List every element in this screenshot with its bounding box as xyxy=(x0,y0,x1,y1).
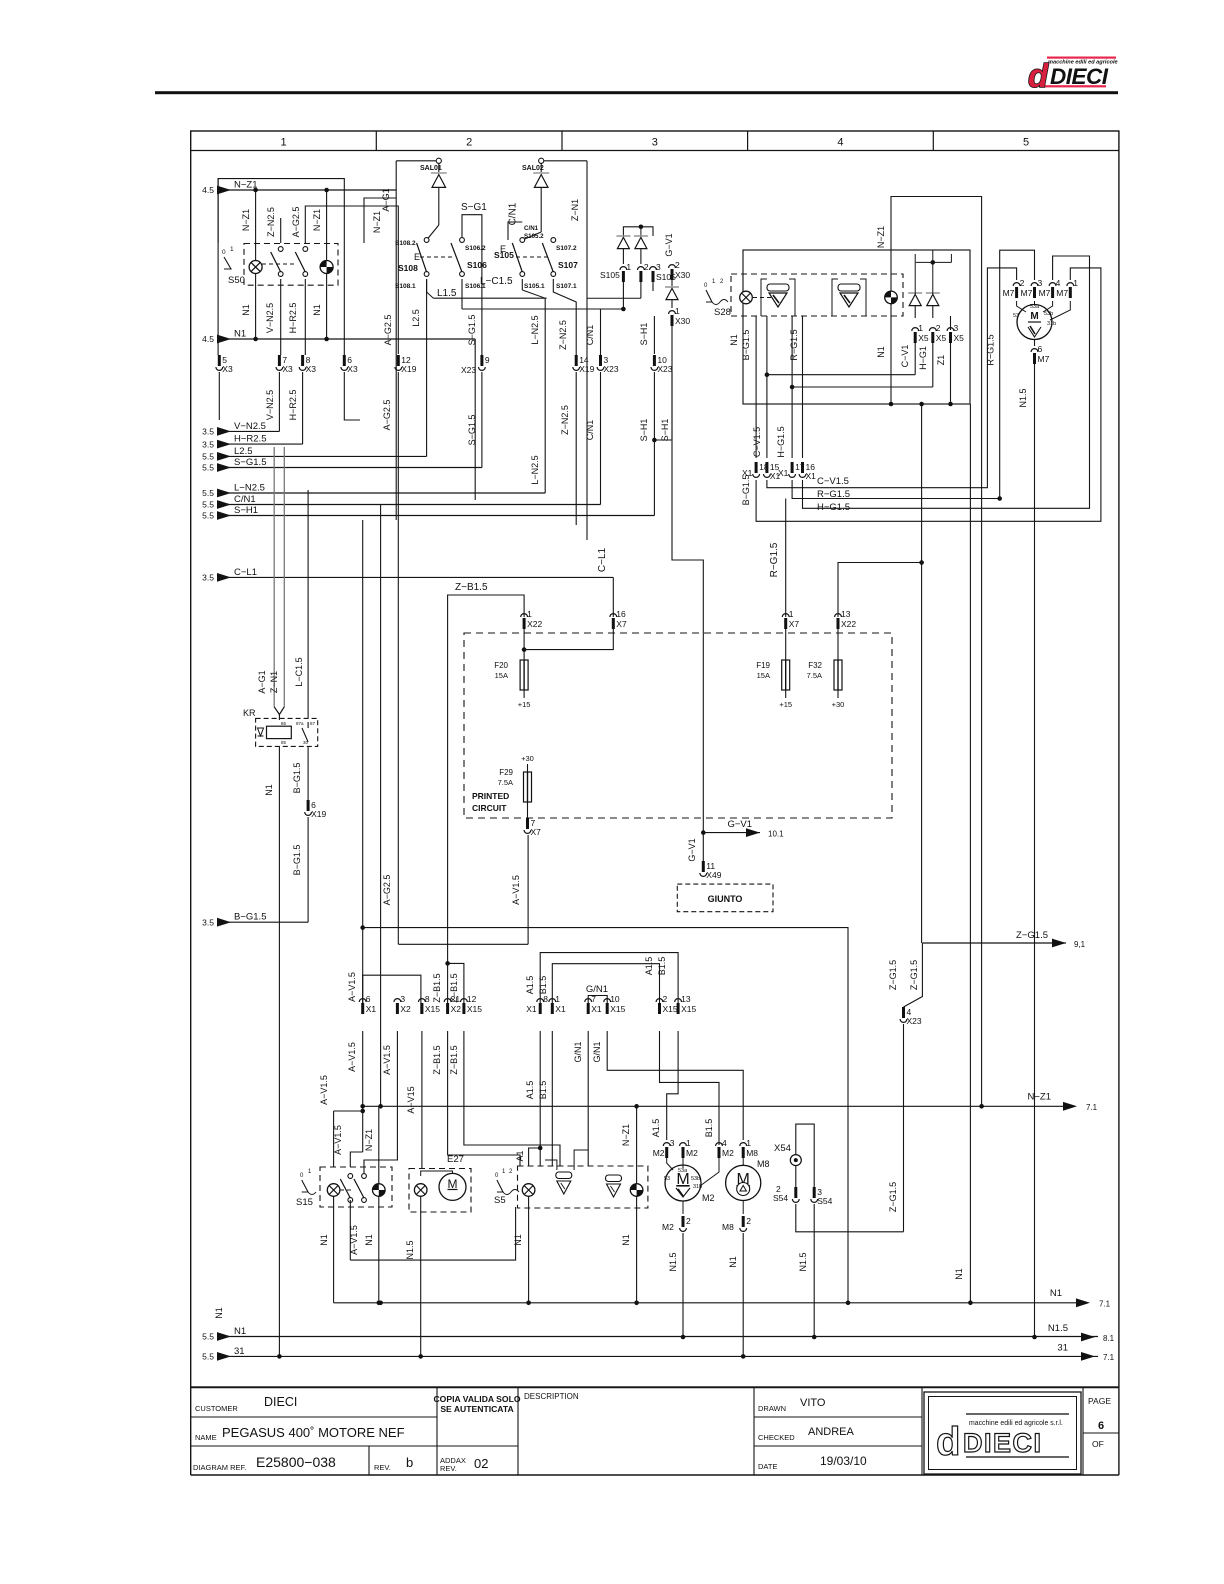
printed circuit (dashed box) xyxy=(464,633,892,818)
node R-G1.5 T-junction xyxy=(919,560,924,565)
svg-text:5.5: 5.5 xyxy=(202,452,214,462)
wire G-V1 through printed circuit to bus xyxy=(702,633,704,861)
svg-text:A−G2.5: A−G2.5 xyxy=(382,875,392,906)
svg-text:E25800−038: E25800−038 xyxy=(256,1454,336,1470)
svg-text:DIECI: DIECI xyxy=(963,1428,1043,1458)
svg-text:6: 6 xyxy=(1098,1420,1104,1432)
connector pin X7-1 xyxy=(782,609,799,629)
svg-text:B1.5: B1.5 xyxy=(704,1119,714,1138)
wire A-V1.5 below X1-6 xyxy=(362,1031,364,1111)
svg-text:V−N2.5: V−N2.5 xyxy=(265,303,275,333)
node diode bracket dot xyxy=(639,225,644,230)
svg-text:2: 2 xyxy=(1020,278,1025,288)
svg-text:+15: +15 xyxy=(518,700,531,709)
terminal SAL01 xyxy=(436,158,441,163)
title block frame xyxy=(191,1387,1119,1389)
wire Z-G1.5 chain xyxy=(904,943,923,1007)
svg-text:53: 53 xyxy=(1013,313,1019,319)
svg-text:3: 3 xyxy=(670,1138,675,1148)
svg-text:9: 9 xyxy=(485,355,490,365)
twisted pair to KR (A-G1 / Z-N1) xyxy=(273,447,275,707)
wire L-N2.5 vertical xyxy=(544,298,546,493)
wire R-G1.5 to X7-1 xyxy=(785,499,787,618)
svg-text:4: 4 xyxy=(1056,278,1061,288)
svg-text:PAGE: PAGE xyxy=(1088,1396,1111,1406)
svg-text:1: 1 xyxy=(1073,278,1078,288)
wires in E27 xyxy=(421,1171,453,1176)
svg-text:S15: S15 xyxy=(296,1197,313,1208)
svg-text:M8: M8 xyxy=(722,1222,734,1232)
svg-text:8: 8 xyxy=(425,994,430,1004)
svg-text:X15: X15 xyxy=(467,1004,482,1014)
svg-text:S105: S105 xyxy=(600,270,620,280)
wire N-Z1 to S15 filled lamp xyxy=(378,1106,380,1184)
connector pin M7-4 xyxy=(1039,278,1061,298)
svg-text:N−Z1: N−Z1 xyxy=(364,1129,374,1151)
motor M2 xyxy=(665,1165,701,1201)
svg-text:X3: X3 xyxy=(282,364,293,374)
wire M2 N1.5 down xyxy=(682,1233,684,1337)
svg-text:G/N1: G/N1 xyxy=(573,1041,583,1062)
wire SAL02 to Z-N1 xyxy=(544,160,587,162)
svg-text:A−G1: A−G1 xyxy=(381,188,391,211)
svg-text:X1: X1 xyxy=(778,468,789,478)
svg-text:M7: M7 xyxy=(1038,354,1050,364)
svg-text:L−N2.5: L−N2.5 xyxy=(234,483,265,494)
connector pin X3-5 xyxy=(216,355,233,374)
svg-text:53a: 53a xyxy=(678,1168,688,1174)
connector pin X2-21 xyxy=(444,994,461,1014)
node C-V1.5 junction xyxy=(765,372,770,377)
wire A-V1.5 S15 switch down xyxy=(349,1200,351,1260)
svg-text:G−V1: G−V1 xyxy=(687,838,697,861)
svg-text:1: 1 xyxy=(230,246,234,253)
wire N1 bus corner down xyxy=(474,339,476,500)
svg-text:86: 86 xyxy=(281,721,287,726)
switch S28 (external) xyxy=(706,290,712,302)
svg-text:d: d xyxy=(936,1420,960,1464)
svg-text:ANDREA: ANDREA xyxy=(808,1426,855,1438)
svg-text:8.1: 8.1 xyxy=(1103,1334,1115,1343)
wire N-Z1 into S5 xyxy=(636,1106,638,1184)
column divider xyxy=(561,131,563,151)
svg-text:C−V1.5: C−V1.5 xyxy=(752,427,762,457)
svg-text:1: 1 xyxy=(308,1169,312,1175)
svg-text:3: 3 xyxy=(1038,278,1043,288)
switch S106 xyxy=(451,238,464,277)
svg-text:G−V1: G−V1 xyxy=(664,233,674,256)
svg-text:1: 1 xyxy=(675,306,680,316)
svg-text:CUSTOMER: CUSTOMER xyxy=(195,1404,238,1413)
terminal SAL02 xyxy=(539,158,544,163)
connector pin X7-7 xyxy=(524,818,541,837)
svg-text:GIUNTO: GIUNTO xyxy=(708,894,743,904)
connector pin S105-2 xyxy=(638,262,649,282)
svg-text:X1: X1 xyxy=(806,471,817,481)
wire S15 lamp feed xyxy=(333,1111,335,1167)
svg-text:OF: OF xyxy=(1092,1439,1104,1449)
node 31 bus dot xyxy=(418,1354,423,1359)
node L1.5 junction xyxy=(621,307,626,312)
svg-text:C−L1: C−L1 xyxy=(597,547,608,572)
svg-text:H−G1.5: H−G1.5 xyxy=(817,502,850,513)
dashed coupling S105-S107 xyxy=(516,256,547,258)
svg-text:6: 6 xyxy=(1038,344,1043,354)
svg-text:7: 7 xyxy=(591,994,596,1004)
svg-text:N1.5: N1.5 xyxy=(1048,1323,1068,1334)
wires below S105 pins xyxy=(622,282,624,309)
svg-text:Z−G1.5: Z−G1.5 xyxy=(888,1182,898,1212)
connector pin M2-4 xyxy=(716,1138,734,1158)
dashed coupling inside S50 xyxy=(262,263,296,265)
svg-text:Z−N1: Z−N1 xyxy=(269,671,279,693)
wire S105.1 down to L-N2.5 xyxy=(521,279,523,290)
svg-text:4: 4 xyxy=(837,137,843,149)
svg-text:A−V1.5: A−V1.5 xyxy=(349,1225,359,1255)
svg-text:21: 21 xyxy=(451,994,461,1004)
svg-text:B1.5: B1.5 xyxy=(538,976,548,995)
wire N-Z1 up-right to A-G1 column xyxy=(364,198,396,243)
node N1.5 dot xyxy=(681,1335,686,1340)
svg-text:L1.5: L1.5 xyxy=(437,288,457,299)
valve 2 in S5 xyxy=(606,1175,622,1197)
svg-text:A−G2.5: A−G2.5 xyxy=(383,315,393,346)
svg-text:S106.2: S106.2 xyxy=(465,245,486,252)
svg-text:N−Z1: N−Z1 xyxy=(621,1124,631,1146)
title block column lines xyxy=(436,1388,438,1476)
connector pin X1-15 xyxy=(764,462,781,481)
wires below X3 pins to entries xyxy=(278,372,280,431)
svg-text:10.1: 10.1 xyxy=(768,830,784,839)
svg-text:G−V1: G−V1 xyxy=(727,819,752,830)
svg-text:DIECI: DIECI xyxy=(1050,64,1109,89)
wire G/N1 into S5 xyxy=(587,1031,589,1166)
svg-text:10: 10 xyxy=(610,994,620,1004)
connector pin X49-11 xyxy=(700,861,722,880)
node N-Z1 dot xyxy=(378,1104,383,1109)
svg-text:N−Z1: N−Z1 xyxy=(372,211,382,233)
svg-text:L−N2.5: L−N2.5 xyxy=(530,315,540,344)
connector pin M7-6 xyxy=(1031,344,1049,364)
svg-text:M2: M2 xyxy=(702,1193,715,1203)
svg-text:DIAGRAM REF.: DIAGRAM REF. xyxy=(193,1463,246,1472)
wire L1.5 horizontal xyxy=(433,297,546,299)
wires below X1-8/X1-1 into S5 xyxy=(539,1031,541,1166)
svg-text:3: 3 xyxy=(400,994,405,1004)
switch S5 actuator xyxy=(497,1180,503,1192)
connector pin X5-2 xyxy=(929,323,946,343)
lamp (filled) in S5 xyxy=(630,1184,643,1197)
svg-text:+30: +30 xyxy=(521,754,534,763)
wire A-G2.5 via X19-12 xyxy=(305,206,398,354)
svg-text:N1: N1 xyxy=(513,1234,523,1246)
diode to X5-2 xyxy=(926,293,940,306)
svg-text:X5: X5 xyxy=(954,333,965,343)
svg-text:C/N1: C/N1 xyxy=(585,420,595,441)
wire valve1 connections xyxy=(545,1160,557,1170)
svg-text:5.5: 5.5 xyxy=(202,463,214,473)
svg-text:X19: X19 xyxy=(401,364,416,374)
svg-text:N−Z1: N−Z1 xyxy=(876,226,886,248)
switch S108 xyxy=(417,238,429,277)
relay KR coil xyxy=(267,726,292,738)
svg-text:3.5: 3.5 xyxy=(202,573,214,583)
svg-text:4.5: 4.5 xyxy=(202,185,214,195)
connector pin X19-12 xyxy=(395,355,417,374)
svg-text:4.5: 4.5 xyxy=(202,334,214,344)
svg-text:L−C1.5: L−C1.5 xyxy=(480,276,513,287)
svg-text:S5: S5 xyxy=(494,1195,506,1206)
connector pin X19-14 xyxy=(573,355,595,374)
svg-text:N1: N1 xyxy=(621,1234,631,1246)
wire Z-N1 vertical xyxy=(586,161,588,540)
svg-text:X19: X19 xyxy=(311,809,326,819)
wire C-L1 to X7-16 xyxy=(612,577,614,617)
svg-text:S28: S28 xyxy=(714,307,731,318)
svg-text:B−G1.5: B−G1.5 xyxy=(234,912,266,923)
svg-text:S−H1: S−H1 xyxy=(234,505,258,516)
wire SAL02 to S105 xyxy=(540,188,542,232)
svg-text:X1: X1 xyxy=(555,1004,566,1014)
connector pin X1-16 xyxy=(799,462,816,481)
svg-text:F29: F29 xyxy=(499,768,513,777)
svg-text:CIRCUIT: CIRCUIT xyxy=(472,803,507,813)
valve box S5 (dashed) xyxy=(518,1166,648,1208)
node N-Z1 dot xyxy=(979,1104,984,1109)
svg-text:S50: S50 xyxy=(228,275,245,286)
connector pin X1-17 xyxy=(789,462,805,477)
svg-text:M7: M7 xyxy=(1056,288,1068,298)
svg-text:N1: N1 xyxy=(728,1256,738,1268)
lamp in S15 xyxy=(327,1184,340,1197)
wire long vertical mid-left A xyxy=(362,520,364,1014)
svg-text:X3: X3 xyxy=(347,364,358,374)
valve 1 in S5 xyxy=(556,1172,572,1194)
svg-text:7.5A: 7.5A xyxy=(807,671,822,680)
connector pin X1-8 xyxy=(526,994,548,1014)
svg-text:M8: M8 xyxy=(757,1159,770,1169)
svg-text:C/N1: C/N1 xyxy=(234,494,256,505)
column divider xyxy=(375,131,377,151)
wire M7 motor bottom xyxy=(1034,340,1036,347)
wire Z-N2.5 vertical xyxy=(575,316,577,355)
wires M7 pins into motor xyxy=(1017,301,1026,312)
motor box E27 (dashed) xyxy=(409,1169,471,1213)
relay/lamp box S28 (dashed) xyxy=(731,274,903,316)
svg-text:X22: X22 xyxy=(841,619,856,629)
svg-text:X3: X3 xyxy=(222,364,233,374)
svg-text:B−G1.5: B−G1.5 xyxy=(741,330,751,361)
svg-text:N1.5: N1.5 xyxy=(668,1252,678,1271)
wire B1.5 to M2-4 xyxy=(660,1031,720,1145)
svg-text:X7: X7 xyxy=(531,827,542,837)
lamp (filled) in S50 box xyxy=(320,261,333,274)
relay KR contact xyxy=(307,722,309,728)
wire S-H1 chain xyxy=(653,316,655,354)
wire G-V1 down to printed circuit xyxy=(672,326,703,633)
connector pin S54-3 xyxy=(811,1187,833,1206)
svg-text:X7: X7 xyxy=(789,619,800,629)
svg-text:M7: M7 xyxy=(1003,288,1015,298)
flasher symbol 1 in S28 xyxy=(767,284,789,307)
connector pin X5-1 xyxy=(912,323,929,343)
svg-text:M: M xyxy=(448,1177,458,1191)
svg-text:S54: S54 xyxy=(773,1193,788,1203)
svg-text:S−H1: S−H1 xyxy=(639,323,649,346)
connector pin X30-2 xyxy=(669,260,691,280)
switch S50 actuator xyxy=(224,257,231,269)
wire to S15 switch xyxy=(350,1152,362,1167)
svg-text:H−G1.5: H−G1.5 xyxy=(776,426,786,457)
GIUNTO (dashed box) xyxy=(677,884,773,912)
wire N-Z1 top loop xyxy=(891,197,982,1107)
svg-text:SAL02: SAL02 xyxy=(522,165,544,172)
wire C−L1 bus xyxy=(225,576,613,578)
bracket X1-1 / X15-2 xyxy=(552,964,659,1014)
svg-text:7.1: 7.1 xyxy=(1099,1300,1111,1309)
svg-text:0: 0 xyxy=(222,249,226,256)
wire S50 left pole down xyxy=(217,179,219,355)
svg-text:Z−N2.5: Z−N2.5 xyxy=(558,320,568,350)
wire X22-1 to F20 xyxy=(523,629,525,660)
svg-text:S105.2: S105.2 xyxy=(524,233,544,240)
node N-Z1 bus dots xyxy=(253,188,258,193)
connector pin X1-1 xyxy=(549,994,566,1014)
node S-H1 junction xyxy=(652,438,657,443)
wire N1 bus xyxy=(225,338,475,340)
svg-text:PEGASUS 400˚ MOTORE NEF: PEGASUS 400˚ MOTORE NEF xyxy=(222,1425,405,1440)
wire C-V1 to box drop xyxy=(767,374,915,376)
svg-text:VITO: VITO xyxy=(800,1397,826,1409)
svg-text:1: 1 xyxy=(686,1138,691,1148)
svg-text:V−N2.5: V−N2.5 xyxy=(234,421,266,432)
svg-text:N1: N1 xyxy=(264,784,274,796)
svg-text:19/03/10: 19/03/10 xyxy=(820,1454,867,1468)
svg-text:L−N2.5: L−N2.5 xyxy=(530,455,540,484)
S28 wire box (solid) xyxy=(743,250,970,404)
wire X3-6 tail xyxy=(344,372,360,420)
svg-text:31: 31 xyxy=(1057,1343,1068,1354)
svg-text:8: 8 xyxy=(543,994,548,1004)
column header band xyxy=(191,150,1119,152)
svg-text:L−C1.5: L−C1.5 xyxy=(294,657,304,686)
lamp in E27 xyxy=(414,1184,427,1197)
bracket X1-8 / X15-13 xyxy=(540,953,678,1014)
wire F32 feed from R-G1.5 column xyxy=(838,563,922,618)
wire A-G2.5 long vertical xyxy=(397,372,399,944)
wire C/N1 stub xyxy=(508,222,522,240)
wire A-G1 vertical xyxy=(395,161,397,520)
diode S105 b xyxy=(634,236,648,249)
wire B−G1.5 bus xyxy=(225,921,308,923)
node N1.5 bus dot xyxy=(1032,1335,1037,1340)
svg-text:3.5: 3.5 xyxy=(202,917,214,927)
svg-text:REV.: REV. xyxy=(374,1463,391,1472)
svg-text:X15: X15 xyxy=(681,1004,696,1014)
svg-text:2: 2 xyxy=(509,1169,513,1175)
node N-Z1 dot xyxy=(360,1104,365,1109)
node Z1 to box bottom xyxy=(948,402,953,407)
svg-text:Z−B1.5: Z−B1.5 xyxy=(449,1045,459,1074)
node N1 dot xyxy=(634,1301,639,1306)
wire N1 S28 to bus xyxy=(969,404,971,1303)
svg-text:PRINTED: PRINTED xyxy=(472,791,509,801)
connector pin X19-6 xyxy=(305,800,327,819)
connector pin X23-3 xyxy=(597,355,619,374)
svg-text:53b: 53b xyxy=(1044,311,1053,317)
svg-text:Z−G1.5: Z−G1.5 xyxy=(1016,930,1048,941)
node Z-B1.5 dot xyxy=(445,961,450,966)
wire G/N1 to M8-1 xyxy=(607,1031,743,1140)
node A junction xyxy=(360,925,365,930)
wire M2 bottom pin xyxy=(682,1201,684,1214)
svg-text:N1: N1 xyxy=(312,304,322,316)
svg-text:A−V1.5: A−V1.5 xyxy=(319,1075,329,1105)
switch S50 master switch (dashed box) xyxy=(244,244,338,286)
svg-text:M2: M2 xyxy=(662,1222,674,1232)
wire S106 to S105 diodes xyxy=(462,308,624,310)
svg-text:B−G1.5: B−G1.5 xyxy=(292,845,302,876)
svg-text:5.5: 5.5 xyxy=(202,1332,214,1342)
lamp in S50 box xyxy=(249,261,262,274)
wire KR coil N1 down to 31 bus xyxy=(278,746,280,1356)
svg-text:A−G2.5: A−G2.5 xyxy=(291,207,301,238)
wires S15 bottoms xyxy=(333,1196,335,1303)
wires S50 to N1 bus xyxy=(255,273,257,339)
DIECI logo (title block) xyxy=(924,1392,1081,1474)
wires Z-B1.5 down to S5 xyxy=(448,1031,520,1166)
node R-G1.5 M7 junction xyxy=(997,496,1002,501)
svg-text:X19: X19 xyxy=(579,364,594,374)
svg-text:0: 0 xyxy=(495,1173,499,1179)
node diode feed xyxy=(931,260,936,265)
svg-text:X23: X23 xyxy=(604,364,619,374)
svg-text:REV.: REV. xyxy=(440,1464,457,1473)
svg-text:A−V1.5: A−V1.5 xyxy=(382,1045,392,1075)
svg-text:N1: N1 xyxy=(876,346,886,358)
wire diode a to pin xyxy=(914,306,916,318)
wire N1 bus (lower) xyxy=(334,1302,1077,1304)
svg-text:X5: X5 xyxy=(918,333,929,343)
svg-text:DIECI: DIECI xyxy=(264,1395,297,1409)
svg-text:DESCRIPTION: DESCRIPTION xyxy=(524,1392,579,1401)
svg-text:S107: S107 xyxy=(558,260,578,270)
svg-text:6: 6 xyxy=(366,994,371,1004)
svg-text:N1: N1 xyxy=(241,304,251,316)
relay KR (dashed box) xyxy=(256,718,318,746)
diode SAL02 xyxy=(540,163,542,172)
svg-text:2: 2 xyxy=(746,1216,751,1226)
wire bracket flasher2 xyxy=(832,279,838,316)
node N1 bus dot xyxy=(846,1301,851,1306)
switch S50 pole 1 xyxy=(271,247,283,277)
svg-text:E: E xyxy=(500,244,506,254)
svg-text:Z−B1.5: Z−B1.5 xyxy=(432,1045,442,1074)
svg-text:N1.5: N1.5 xyxy=(1018,388,1028,407)
svg-text:L2.5: L2.5 xyxy=(234,446,253,457)
svg-text:E27: E27 xyxy=(447,1154,464,1165)
wires S5 bottoms xyxy=(528,1196,530,1303)
svg-text:4: 4 xyxy=(722,1138,727,1148)
connector pin S54-2 xyxy=(792,1187,799,1202)
connector pin X7-16 xyxy=(610,609,627,629)
wire A-V1.5 from X7-7 xyxy=(527,835,529,944)
svg-text:3: 3 xyxy=(656,262,661,272)
svg-text:G/N1: G/N1 xyxy=(592,1041,602,1062)
svg-text:COPIA VALIDA SOLO: COPIA VALIDA SOLO xyxy=(433,1394,520,1404)
svg-text:X30: X30 xyxy=(675,270,690,280)
wire B-G1.5 to M7-1 xyxy=(756,268,1101,521)
